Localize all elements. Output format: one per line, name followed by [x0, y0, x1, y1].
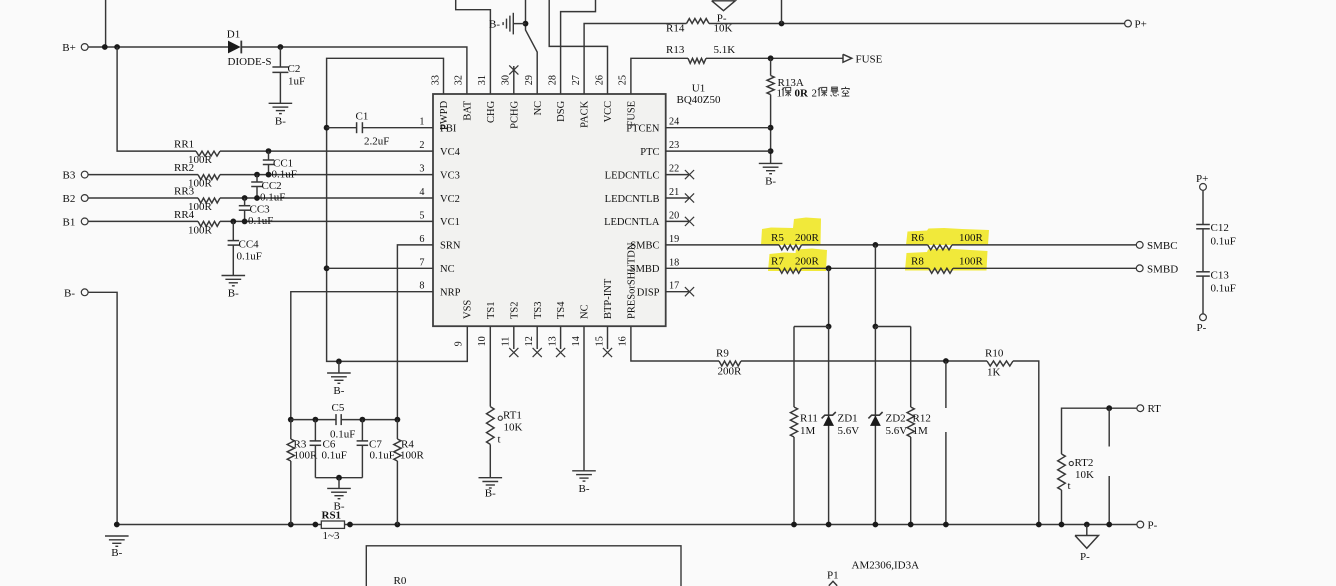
wire B1 to RR4: [88, 220, 198, 222]
svg-text:9: 9: [454, 341, 465, 346]
svg-text:23: 23: [669, 140, 679, 151]
junction rail at R4: [395, 522, 401, 528]
svg-text:P1: P1: [827, 570, 839, 582]
terminal P+ above C12: [1200, 184, 1207, 191]
ground B- below C2: [269, 102, 293, 104]
svg-text:RT1: RT1: [503, 410, 522, 422]
svg-text:NC: NC: [440, 264, 455, 275]
junction rail at R12: [908, 522, 914, 528]
label R13A note glyph kong: [845, 87, 847, 88]
no-connect cross pin 15: [603, 348, 612, 357]
svg-text:21: 21: [669, 187, 679, 198]
terminal B3: [81, 171, 88, 178]
wire SMBD branch down: [828, 268, 830, 326]
wire stub below R10 branch: [945, 361, 947, 408]
junction rail at RS1 right: [347, 522, 353, 528]
wire C2 bottom lead: [279, 72, 281, 103]
svg-text:0.1uF: 0.1uF: [237, 251, 262, 263]
svg-text:VC3: VC3: [440, 170, 460, 181]
junction rail at ZD2: [873, 522, 879, 528]
svg-text:LEDCNTLA: LEDCNTLA: [604, 217, 660, 228]
no-connect stub pin 12: [536, 326, 538, 349]
svg-text:P-: P-: [1148, 520, 1158, 532]
resistor R13A: [770, 58, 772, 75]
svg-text:B-: B-: [485, 488, 496, 500]
resistor pack R0 box: [366, 546, 681, 586]
svg-text:100R: 100R: [959, 256, 984, 268]
wire P+ to C12: [1202, 190, 1204, 224]
wire C5 row right segment: [341, 419, 397, 421]
svg-text:0.1uF: 0.1uF: [370, 450, 395, 462]
ground B- below C6 C7: [327, 487, 351, 489]
wire pin 26 VCC to top edge: [549, 0, 607, 94]
junction rail at RT2: [1059, 522, 1065, 528]
capacitor C5: [335, 414, 337, 425]
capacitor C7: [361, 420, 363, 441]
wire pin 19 SMBC to R5: [666, 244, 779, 246]
no-connect stub pin 11: [513, 326, 515, 349]
svg-text:20: 20: [669, 210, 679, 221]
svg-text:ZD2: ZD2: [886, 413, 906, 425]
thermistor RT2: [1058, 454, 1066, 490]
svg-text:1M: 1M: [913, 425, 929, 437]
junction CC1 top: [266, 148, 272, 154]
junction C6 C7 ground tap: [336, 475, 342, 481]
svg-text:2.2uF: 2.2uF: [364, 136, 389, 148]
svg-text:100R: 100R: [294, 450, 319, 462]
wire B2 to RR3: [88, 197, 198, 199]
wire ZD1 vertical: [828, 327, 830, 525]
svg-text:R9: R9: [716, 348, 729, 360]
ground B- below pin 14: [572, 470, 596, 472]
resistor R6: [928, 245, 952, 250]
no-connect cross pin 21: [685, 193, 694, 202]
wire pin 23 PTC to R13A net: [666, 150, 771, 152]
svg-text:4: 4: [419, 187, 424, 198]
capacitor C12: [1196, 224, 1210, 226]
svg-text:SMBC: SMBC: [630, 241, 659, 252]
svg-text:PACK: PACK: [580, 100, 591, 127]
svg-text:5.6V: 5.6V: [838, 425, 860, 437]
highlight over R7: [768, 249, 827, 272]
capacitor CC3: [244, 198, 246, 206]
no-connect stub pin 15: [607, 326, 609, 349]
power port P- above R14: [712, 1, 736, 11]
junction C5 row left: [288, 417, 294, 423]
junction C5 row at C6: [313, 417, 319, 423]
wire B3 to RR2: [88, 174, 198, 176]
svg-text:B-: B-: [334, 500, 345, 512]
svg-text:26: 26: [594, 75, 605, 85]
svg-text:B-: B-: [275, 115, 286, 127]
svg-text:C1: C1: [356, 111, 369, 123]
wire stub above rail right: [1108, 476, 1110, 525]
svg-text:VCC: VCC: [603, 101, 614, 123]
wire C12 to C13: [1202, 229, 1204, 272]
junction CC3 top: [242, 195, 248, 201]
svg-text:0.1uF: 0.1uF: [260, 192, 285, 204]
junction CC1 bottom: [266, 172, 272, 178]
junction rail at ZD1: [826, 522, 832, 528]
diode D1: [228, 41, 241, 54]
wire VSS row to pin 9: [339, 326, 467, 361]
svg-text:TS3: TS3: [533, 301, 544, 319]
junction SMBC branch: [873, 242, 879, 248]
capacitor C2: [272, 66, 288, 68]
resistor R5: [779, 245, 802, 250]
svg-text:13: 13: [547, 336, 558, 346]
no-connect cross pin 17: [685, 287, 694, 296]
ground B- below VSS row: [327, 372, 351, 374]
resistor R7: [779, 268, 802, 273]
svg-text:RT2: RT2: [1075, 457, 1094, 469]
junction at C2 tap: [278, 44, 284, 50]
svg-text:B-: B-: [579, 483, 590, 495]
highlight over R6: [906, 228, 989, 245]
svg-text:FUSE: FUSE: [856, 53, 883, 65]
svg-text:2: 2: [419, 140, 424, 151]
svg-text:R5: R5: [771, 232, 784, 244]
svg-text:LEDCNTLB: LEDCNTLB: [605, 194, 660, 205]
terminal B2: [81, 195, 88, 202]
no-connect stub pin 21: [666, 197, 689, 199]
wire R13 to FUSE port: [706, 57, 843, 59]
svg-text:22: 22: [669, 164, 679, 175]
highlight over R8: [905, 249, 988, 271]
svg-text:B-: B-: [489, 18, 500, 30]
svg-text:BQ40Z50: BQ40Z50: [677, 94, 722, 106]
junction at B+ branch: [114, 44, 120, 50]
ground B- below R13A: [759, 162, 783, 164]
junction pin 24 row: [768, 125, 774, 131]
resistor R12: [910, 327, 912, 408]
svg-text:1K: 1K: [987, 367, 1001, 379]
svg-text:200R: 200R: [718, 366, 743, 378]
svg-text:B2: B2: [63, 193, 76, 205]
svg-text:SMBD: SMBD: [1147, 263, 1178, 275]
wire pin 33 PWPD left and down to VSS row: [327, 58, 444, 361]
wire pin 16 PRES down and right to R9: [631, 326, 719, 361]
svg-text:0.1uF: 0.1uF: [1211, 283, 1236, 295]
junction CC3 bottom: [242, 219, 248, 225]
svg-text:BTP-INT: BTP-INT: [603, 278, 614, 319]
wire C6 C7 bottoms join: [315, 477, 362, 479]
wire pin 25 FUSE up to R13: [631, 58, 688, 94]
wire pin 14 NC down to ground: [583, 326, 585, 471]
wire RR3 to pin 4 VC2: [220, 197, 433, 199]
wire R5 to R6: [802, 244, 928, 246]
zener diode ZD1: [823, 415, 834, 426]
svg-text:12: 12: [524, 336, 535, 346]
svg-text:200R: 200R: [795, 256, 820, 268]
wire ZD1 top to R11 top: [794, 326, 829, 328]
junction C5 row at C7: [360, 417, 366, 423]
junction pin 23 row: [768, 148, 774, 154]
svg-text:CC3: CC3: [250, 203, 271, 215]
junction at R13A top: [768, 55, 774, 61]
svg-text:0.1uF: 0.1uF: [1211, 236, 1236, 248]
svg-text:PCHG: PCHG: [509, 100, 520, 128]
no-connect stub pin 30: [513, 66, 515, 94]
zener diode ZD2: [870, 415, 881, 426]
capacitor C1: [327, 127, 357, 129]
wire pin 8 NRP down to C5 row: [291, 292, 433, 420]
terminal RT: [1137, 405, 1144, 412]
no-connect stub pin 13: [560, 326, 562, 349]
svg-text:10K: 10K: [504, 422, 523, 434]
no-connect cross pin 22: [685, 170, 694, 179]
wire RR2 to pin 3 VC3: [220, 174, 433, 176]
wire pin 10 TS1 down to RT1: [489, 326, 491, 406]
wire R7 to R8: [802, 267, 929, 269]
svg-text:RT: RT: [1148, 403, 1162, 415]
wire C5 row left segment: [291, 419, 336, 421]
svg-text:25: 25: [618, 75, 629, 85]
wire pin 31 CHG to top edge: [456, 0, 491, 94]
svg-text:B-: B-: [333, 385, 344, 397]
resistor R9: [719, 361, 741, 366]
junction at B+ node: [102, 44, 108, 50]
svg-text:28: 28: [547, 75, 558, 85]
op-amp U1 BQ40Z50 body: [433, 94, 666, 326]
wire B+ branch down to RR1: [117, 47, 196, 151]
sideways ground B- at top: [512, 13, 514, 35]
wire R9 to R10: [741, 360, 987, 362]
junction rail at R10 right: [1036, 522, 1042, 528]
resistor RR3: [198, 198, 220, 203]
capacitor CC4: [232, 221, 234, 240]
wire pin 27 PACK up to R14: [584, 24, 686, 95]
svg-text:PTC: PTC: [640, 147, 659, 158]
label R13A note glyph bao: [782, 88, 784, 97]
junction rail at R11: [791, 522, 797, 528]
resistor R3: [290, 420, 292, 439]
wire pin 7 NC to vertical: [327, 267, 433, 269]
svg-text:CC2: CC2: [262, 180, 282, 192]
port arrow P1: [829, 581, 837, 586]
resistor R11: [793, 327, 795, 408]
junction at VSS ground tap: [336, 359, 342, 365]
svg-text:PBI: PBI: [440, 124, 457, 135]
svg-text:RR1: RR1: [174, 139, 194, 151]
thermistor RT1: [487, 407, 495, 445]
capacitor CC1: [268, 151, 270, 160]
junction SMBD branch: [826, 265, 832, 271]
no-connect cross pin 11: [509, 348, 518, 357]
svg-text:SRN: SRN: [440, 241, 461, 252]
junction C5 row right: [395, 417, 401, 423]
resistor RR1: [196, 151, 220, 156]
svg-text:5.6V: 5.6V: [886, 425, 908, 437]
svg-text:2: 2: [812, 88, 818, 100]
svg-text:R10: R10: [985, 348, 1004, 360]
bottom rail wire B- to P-: [117, 524, 1137, 526]
resistor RR2: [198, 175, 220, 180]
terminal B1: [81, 218, 88, 225]
svg-text:11: 11: [501, 337, 512, 347]
svg-text:C5: C5: [332, 402, 345, 414]
wire pin 6 SRN down to C5 row: [397, 245, 433, 420]
svg-text:VC4: VC4: [440, 147, 461, 158]
junction rail at R10 branch: [943, 522, 949, 528]
svg-text:10: 10: [477, 336, 488, 346]
svg-text:14: 14: [571, 336, 582, 346]
svg-text:VSS: VSS: [463, 300, 474, 319]
svg-text:5: 5: [419, 210, 424, 221]
svg-text:SMBC: SMBC: [1147, 240, 1178, 252]
svg-text:100R: 100R: [959, 232, 984, 244]
wire B+ to diode D1: [88, 46, 228, 48]
no-connect cross pin 12: [533, 348, 542, 357]
wire pin 18 SMBD to R7: [666, 267, 779, 269]
wire R8 to terminal SMBD: [953, 267, 1136, 269]
wire B- to bottom rail: [88, 292, 117, 524]
svg-text:R13: R13: [666, 44, 685, 56]
no-connect stub pin 22: [666, 174, 689, 176]
svg-text:33: 33: [430, 75, 441, 85]
ground B- below rail: [105, 535, 129, 537]
junction at ZD2 top: [873, 324, 879, 330]
svg-text:BAT: BAT: [463, 100, 474, 120]
terminal P- below C13: [1200, 314, 1207, 321]
svg-text:B-: B-: [228, 288, 239, 300]
svg-text:5.1K: 5.1K: [714, 44, 736, 56]
wire ZD2 vertical: [874, 327, 876, 525]
resistor R4: [396, 420, 398, 439]
svg-text:DISP: DISP: [637, 288, 660, 299]
svg-text:R8: R8: [911, 256, 924, 268]
terminal P- at rail end: [1137, 521, 1144, 528]
svg-text:R14: R14: [666, 23, 685, 35]
junction CC4 top: [230, 219, 236, 225]
wire RR1 to pin 2 VC4: [220, 150, 433, 152]
svg-text:RR4: RR4: [174, 209, 195, 221]
svg-text:1: 1: [777, 88, 783, 100]
svg-text:6: 6: [419, 234, 424, 245]
junction CC2 bottom: [254, 195, 260, 201]
svg-text:100R: 100R: [188, 225, 213, 237]
ground B- below RT1: [479, 477, 503, 479]
svg-text:D1: D1: [227, 29, 240, 41]
svg-text:RR2: RR2: [174, 162, 194, 174]
wire ZD2 top to R12 top: [875, 326, 910, 328]
svg-text:VC1: VC1: [440, 217, 460, 228]
svg-text:SMBD: SMBD: [630, 264, 660, 275]
highlight over R5: [761, 218, 821, 246]
svg-text:CC4: CC4: [239, 239, 260, 251]
svg-text:18: 18: [669, 257, 679, 268]
svg-text:R7: R7: [771, 256, 784, 268]
wire stub above rail at R10 branch: [945, 432, 947, 525]
resistor R14: [687, 19, 710, 24]
svg-text:DIODE-S: DIODE-S: [228, 56, 272, 68]
svg-text:ZD1: ZD1: [838, 413, 858, 425]
svg-text:3: 3: [419, 164, 424, 175]
wire R14 to terminal P+: [709, 23, 1125, 25]
svg-text:200R: 200R: [795, 232, 820, 244]
svg-text:TS1: TS1: [486, 301, 497, 319]
svg-text:7: 7: [419, 257, 424, 268]
svg-text:B+: B+: [62, 42, 76, 54]
svg-text:29: 29: [524, 75, 535, 85]
svg-text:17: 17: [669, 281, 679, 292]
wire RR4 to pin 5 VC1: [220, 220, 433, 222]
wire junction to top edge: [781, 0, 783, 24]
no-connect cross pin 30: [509, 65, 518, 74]
junction rail at RS1 left: [313, 522, 319, 528]
svg-text:100R: 100R: [400, 450, 425, 462]
svg-text:0R: 0R: [795, 88, 810, 100]
svg-text:R12: R12: [913, 413, 931, 425]
svg-text:CHG: CHG: [486, 100, 497, 123]
svg-text:C2: C2: [288, 63, 301, 75]
shunt resistor RS1: [321, 521, 344, 528]
capacitor CC2: [256, 175, 258, 182]
svg-text:1~3: 1~3: [323, 530, 340, 542]
junction at B- top node: [523, 21, 529, 27]
wire pin 28 DSG to top edge: [561, 0, 596, 94]
svg-text:TS4: TS4: [556, 301, 567, 319]
wire C2 top lead: [279, 47, 281, 67]
svg-text:NC: NC: [533, 101, 544, 116]
svg-text:27: 27: [571, 75, 582, 85]
junction on PACK net: [779, 21, 785, 27]
resistor R8: [929, 268, 953, 273]
svg-text:R11: R11: [800, 413, 818, 425]
svg-text:t: t: [498, 434, 501, 446]
svg-text:B-: B-: [64, 287, 75, 299]
terminal SMBC: [1136, 242, 1143, 249]
wire ground tap: [338, 361, 340, 373]
svg-text:AM2306,ID3A: AM2306,ID3A: [852, 560, 920, 572]
capacitor C6: [314, 420, 316, 441]
svg-text:19: 19: [669, 234, 679, 245]
svg-text:NRP: NRP: [440, 288, 461, 299]
svg-text:C12: C12: [1211, 222, 1229, 234]
svg-text:C13: C13: [1211, 269, 1230, 281]
no-connect stub pin 17: [666, 291, 689, 293]
junction CC2 top: [254, 172, 260, 178]
resistor R10: [987, 361, 1013, 366]
svg-text:0.1uF: 0.1uF: [272, 169, 297, 181]
resistor RR4: [198, 221, 220, 226]
svg-text:PTCEN: PTCEN: [626, 124, 660, 135]
svg-text:P-: P-: [1197, 322, 1207, 334]
svg-text:10K: 10K: [1075, 469, 1094, 481]
svg-text:8: 8: [419, 281, 424, 292]
wire RT to RT2: [1062, 408, 1137, 454]
svg-text:31: 31: [477, 75, 488, 85]
svg-text:R0: R0: [394, 575, 407, 586]
svg-text:VC2: VC2: [440, 194, 460, 205]
terminal SMBD: [1136, 265, 1143, 272]
svg-text:B1: B1: [63, 216, 76, 228]
capacitor C13: [1196, 271, 1210, 273]
wire R10 down to rail: [1013, 361, 1039, 525]
terminal P+ right of R14: [1125, 20, 1132, 27]
svg-text:R6: R6: [911, 232, 924, 244]
net port arrow FUSE: [843, 54, 852, 62]
no-connect stub pin 20: [666, 220, 689, 222]
svg-text:0.1uF: 0.1uF: [248, 215, 273, 227]
junction rail at RT stub: [1106, 522, 1112, 528]
svg-text:1uF: 1uF: [288, 76, 305, 88]
svg-text:30: 30: [501, 75, 512, 85]
svg-text:LEDCNTLC: LEDCNTLC: [605, 170, 660, 181]
junction at R10 branch: [943, 358, 949, 364]
svg-text:32: 32: [454, 75, 465, 85]
svg-text:TS2: TS2: [509, 301, 520, 319]
